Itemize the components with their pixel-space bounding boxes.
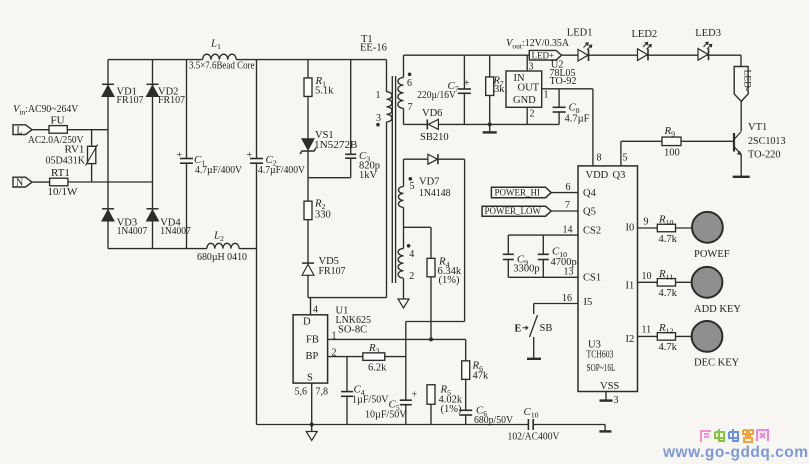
svg-text:3: 3 [376, 113, 381, 124]
svg-text:POWER_LOW: POWER_LOW [485, 206, 542, 216]
wire output rail [404, 54, 742, 56]
svg-text:E: E [515, 324, 522, 335]
capacitor C5 [400, 399, 412, 401]
wire pin16 I5 [534, 303, 578, 305]
wire N to RT1 [32, 181, 50, 183]
capacitor C8 [558, 89, 560, 108]
svg-text:OUT: OUT [518, 83, 540, 94]
svg-text:11: 11 [642, 325, 652, 336]
svg-text:TCH603: TCH603 [587, 350, 614, 361]
svg-text:R9: R9 [664, 125, 676, 139]
svg-text:Q3: Q3 [613, 170, 626, 181]
svg-text:2SC1013: 2SC1013 [748, 136, 786, 147]
transformer core [391, 76, 393, 283]
diode VD3 [102, 210, 114, 221]
svg-text:DEC KEY: DEC KEY [694, 358, 740, 369]
svg-text:CS2: CS2 [583, 226, 601, 237]
svg-text:7,8: 7,8 [316, 387, 329, 398]
resistor R11 [657, 279, 675, 287]
diode VD7 [404, 158, 428, 160]
svg-text:TO-220: TO-220 [748, 150, 781, 161]
svg-text:2: 2 [530, 109, 535, 120]
IC U3 TCH603 [578, 166, 638, 392]
wire drain node [308, 297, 387, 299]
resistor R5 [427, 385, 435, 405]
wire U2 out to U3 VDD pin8 [592, 89, 594, 166]
svg-text:SB210: SB210 [420, 132, 449, 143]
svg-text:R3: R3 [368, 342, 380, 356]
resistor R4 [427, 258, 435, 277]
svg-text:5: 5 [410, 181, 415, 192]
svg-text:3k: 3k [494, 84, 505, 95]
svg-text:16: 16 [562, 293, 572, 304]
svg-text:VD7: VD7 [419, 177, 439, 188]
wire pin10 [638, 281, 658, 283]
net tag POWER_LOW [482, 206, 551, 216]
wire bottom rail [108, 248, 207, 250]
svg-text:+: + [177, 150, 183, 161]
wire bridge right leg [152, 60, 154, 249]
svg-text:2: 2 [409, 271, 414, 282]
svg-text:9: 9 [644, 217, 649, 228]
wire pin14 CS2 [508, 234, 578, 236]
button POWEF [692, 212, 723, 243]
svg-text:100: 100 [664, 148, 680, 159]
svg-text:+: + [247, 150, 253, 161]
ground secondary [489, 124, 491, 131]
svg-text:102/AC400V: 102/AC400V [508, 432, 560, 443]
svg-text:Q4: Q4 [583, 188, 597, 199]
svg-text:13: 13 [564, 267, 574, 278]
svg-text:47k: 47k [473, 371, 490, 382]
svg-text:6: 6 [407, 78, 412, 89]
diode VD6 [426, 119, 428, 129]
wire R4 to FB node [430, 277, 432, 340]
svg-text:S: S [307, 373, 313, 384]
button DEC KEY [692, 321, 723, 352]
svg-text:L1: L1 [210, 38, 221, 52]
svg-text:1kV: 1kV [359, 170, 378, 181]
svg-text:1N4148: 1N4148 [419, 188, 451, 199]
inductor L2 [207, 243, 239, 248]
svg-text:4.7µF: 4.7µF [565, 114, 590, 125]
svg-text:RV1: RV1 [65, 144, 85, 156]
wire pin9 [638, 227, 658, 229]
phase dot pin6 [408, 73, 412, 77]
diode VD4 [147, 210, 159, 221]
transformer primary winding pins 1-3 [386, 60, 388, 92]
wire S pin to ground rail [311, 383, 313, 424]
inductor L1 [203, 54, 237, 59]
svg-text:RT1: RT1 [51, 167, 70, 179]
svg-text:I1: I1 [626, 281, 635, 292]
capacitor C2 [256, 60, 258, 159]
wire R11 to button [676, 281, 692, 283]
resistor R12 [657, 333, 675, 341]
wire FB [328, 338, 466, 340]
svg-text:SO-8C: SO-8C [338, 325, 367, 336]
svg-text:4.7k: 4.7k [659, 288, 678, 299]
svg-text:220µ/16V: 220µ/16V [417, 90, 456, 101]
svg-text:BP: BP [306, 351, 319, 362]
svg-text:4700p: 4700p [551, 257, 577, 268]
varistor RV1 [91, 130, 93, 147]
svg-text:FR107: FR107 [158, 95, 185, 106]
svg-text:10µF/50V: 10µF/50V [365, 410, 407, 421]
svg-text:6.2k: 6.2k [368, 363, 387, 374]
watermark [700, 431, 711, 442]
svg-text:Vout:12V/0.35A: Vout:12V/0.35A [506, 38, 569, 51]
svg-text:VD6: VD6 [422, 108, 442, 119]
junction FB node [429, 337, 433, 341]
svg-text:POWEF: POWEF [694, 249, 730, 260]
svg-text:14: 14 [563, 225, 573, 236]
svg-text:LED1: LED1 [567, 28, 593, 39]
phase dot pin4 [407, 244, 411, 248]
svg-text:TO-92: TO-92 [550, 76, 577, 87]
svg-text:FR107: FR107 [117, 95, 144, 106]
svg-text:FB: FB [306, 335, 319, 346]
terminal L [13, 125, 32, 135]
wire pin13 CS1 [508, 276, 578, 278]
net tag LED- vertical [740, 55, 742, 66]
capacitor C6 [459, 409, 472, 411]
svg-text:4.7µF/400V: 4.7µF/400V [258, 165, 305, 176]
svg-text:R12: R12 [658, 322, 674, 336]
svg-text:www.go-gddq.com: www.go-gddq.com [662, 444, 809, 461]
capacitor C9 [507, 235, 509, 254]
svg-text:FR107: FR107 [319, 266, 346, 277]
svg-text:4.7µF/400V: 4.7µF/400V [195, 165, 242, 176]
wire R9 to U3 pin5 [620, 141, 622, 166]
resistor R9 [621, 140, 662, 142]
zener VS1 [302, 139, 314, 150]
svg-text:LED3: LED3 [695, 28, 721, 39]
svg-text:I0: I0 [626, 223, 635, 234]
svg-text:8: 8 [597, 153, 602, 164]
svg-text:5,6: 5,6 [295, 387, 308, 398]
svg-text:1: 1 [376, 90, 381, 101]
svg-text:4: 4 [409, 249, 414, 260]
wire R10 to button [676, 227, 692, 229]
svg-text:680µH 0410: 680µH 0410 [197, 252, 247, 263]
svg-text:(1%): (1%) [441, 404, 462, 415]
ground earth right [604, 425, 606, 431]
svg-text:+: + [412, 390, 418, 401]
wire FU to bridge [67, 129, 108, 131]
svg-text:1N4007: 1N4007 [117, 226, 148, 237]
wire RT1 to bridge [68, 181, 153, 183]
svg-text:3.5×7.6Bead Core: 3.5×7.6Bead Core [189, 61, 255, 72]
svg-text:L: L [17, 125, 23, 136]
svg-text:SOP~16L: SOP~16L [587, 363, 616, 374]
transistor VT1 [733, 133, 735, 152]
svg-text:10: 10 [642, 271, 652, 282]
wire R3 to bias [385, 356, 406, 358]
svg-text:4: 4 [313, 305, 318, 316]
ground primary return [311, 425, 313, 432]
svg-text:R11: R11 [658, 268, 673, 282]
svg-text:3: 3 [529, 62, 534, 73]
svg-text:N: N [16, 178, 23, 189]
svg-text:POWER_HI: POWER_HI [495, 187, 541, 197]
svg-text:L2: L2 [213, 230, 224, 244]
diode VD1 [102, 86, 114, 97]
ground SB [527, 358, 541, 360]
svg-text:Vin:AC90~264V: Vin:AC90~264V [13, 104, 79, 117]
svg-text:5.1k: 5.1k [315, 86, 334, 97]
resistor R3 [363, 353, 385, 361]
svg-text:+: + [464, 78, 470, 89]
net tag LED+ [529, 50, 561, 60]
wire pin7 [551, 210, 578, 212]
capacitor C7 [463, 55, 465, 89]
svg-text:1: 1 [544, 90, 549, 101]
wire pin11 [638, 335, 658, 337]
capacitor C1 [186, 60, 188, 159]
svg-text:(1%): (1%) [439, 275, 460, 286]
svg-text:I2: I2 [626, 334, 635, 345]
resistor R7 [489, 55, 491, 77]
svg-text:CS1: CS1 [583, 273, 601, 284]
phase dot pin5 [409, 177, 413, 181]
svg-text:7: 7 [565, 200, 570, 211]
wire bridge left leg [107, 60, 109, 249]
svg-text:10/1W: 10/1W [48, 186, 79, 198]
svg-text:EE-16: EE-16 [360, 43, 387, 54]
junction S ground [310, 423, 314, 427]
transformer bias winding pins 4-2 [398, 248, 403, 278]
wire R12 to button [676, 335, 692, 337]
resistor R2 [304, 201, 312, 220]
wire bias tap to R4 [404, 226, 432, 228]
svg-text:FU: FU [51, 115, 65, 127]
capacitor C10 4700p [542, 235, 544, 254]
svg-text:SB: SB [540, 323, 553, 334]
capacitor C10 X-cap 102/AC400V [527, 419, 529, 430]
resistor R1 [307, 60, 309, 78]
ground VT1 emitter [733, 176, 750, 178]
svg-text:LED2: LED2 [632, 29, 658, 40]
diode VD2 [147, 86, 159, 97]
switch SB [533, 304, 535, 315]
button ADD KEY [692, 267, 723, 298]
resistor R10 [657, 224, 675, 232]
ground bias winding [398, 299, 409, 308]
fuse FU [49, 126, 67, 134]
svg-text:1µF/50V: 1µF/50V [352, 395, 389, 406]
capacitor C4 [346, 357, 348, 392]
junction ground rail [488, 122, 492, 126]
svg-text:I5: I5 [584, 297, 593, 308]
svg-text:VT1: VT1 [748, 122, 767, 133]
svg-text:5: 5 [623, 153, 628, 164]
svg-text:3300p: 3300p [513, 264, 539, 275]
svg-text:6: 6 [566, 182, 571, 193]
wire bias vertical [464, 159, 466, 321]
svg-text:R10: R10 [658, 214, 674, 228]
svg-text:LED-: LED- [742, 70, 752, 92]
regulator U2 78L05 [506, 71, 542, 107]
phase dot primary [376, 123, 380, 127]
svg-text:VDD: VDD [586, 170, 609, 181]
wire BP [328, 356, 363, 358]
transformer secondary winding pins 6-7 [403, 55, 405, 77]
wire top rail [108, 59, 203, 61]
svg-text:7: 7 [408, 102, 413, 113]
resistor R6 [465, 339, 467, 360]
svg-text:05D431K: 05D431K [46, 156, 86, 167]
svg-text:Q5: Q5 [583, 207, 596, 218]
thermistor RT1 [50, 178, 68, 186]
svg-text:D: D [303, 317, 311, 328]
svg-text:4.7k: 4.7k [659, 342, 678, 353]
wire L to FU [32, 129, 49, 131]
svg-text:ADD KEY: ADD KEY [694, 304, 741, 315]
terminal N [13, 177, 32, 187]
svg-text:GND: GND [513, 95, 536, 106]
svg-text:3: 3 [614, 395, 619, 406]
svg-text:4.7k: 4.7k [659, 234, 678, 245]
wire VSS pin3 [605, 392, 607, 400]
transformer bias winding pin 5 [403, 159, 405, 186]
svg-text:VSS: VSS [600, 381, 619, 392]
wire LED- to VT1 collector [740, 101, 742, 131]
svg-text:330: 330 [315, 210, 331, 221]
net tag POWER_HI [491, 187, 551, 198]
wire pin6 [551, 192, 578, 194]
wire secondary ground rail [404, 123, 428, 125]
IC U1 LNK625 [293, 315, 328, 383]
svg-text:LED+: LED+ [532, 50, 555, 60]
diode VD5 [302, 264, 314, 275]
capacitor C3 [350, 60, 352, 155]
svg-text:C10: C10 [524, 406, 539, 420]
wire bottom ground rail [257, 424, 529, 426]
